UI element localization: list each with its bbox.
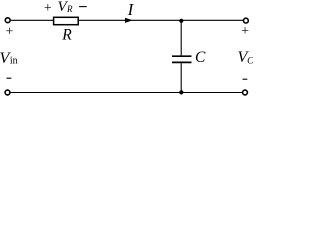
- label V_R: [58, 0, 74, 15]
- node junction bottom: [179, 90, 183, 94]
- current arrow I: [125, 18, 133, 23]
- svg-text:in: in: [10, 55, 18, 66]
- svg-text:R: R: [61, 27, 72, 44]
- svg-text:C: C: [195, 49, 206, 66]
- terminal bottom-left: [5, 90, 10, 95]
- polarity plus top-right: [241, 24, 249, 39]
- label V_C: [238, 49, 255, 66]
- polarity plus top-left: [6, 25, 14, 40]
- polarity minus bottom-left: [7, 77, 12, 79]
- svg-text:+: +: [44, 1, 52, 16]
- node junction top: [179, 19, 183, 23]
- wire top: from left terminal to right terminal: [11, 19, 243, 21]
- capacitor C: [172, 20, 192, 92]
- svg-text:+: +: [6, 25, 14, 40]
- terminal top-right: [244, 18, 249, 23]
- label R: [61, 27, 72, 44]
- terminal bottom-right: [243, 90, 248, 95]
- label V_R plus: [44, 1, 52, 16]
- svg-text:I: I: [127, 0, 135, 19]
- label C: [195, 49, 206, 66]
- terminal top-left: [5, 18, 10, 23]
- svg-text:R: R: [66, 4, 73, 14]
- label V_in: [0, 50, 18, 67]
- polarity minus bottom-right: [243, 78, 248, 80]
- label V_R minus: [79, 6, 87, 8]
- resistor R: [54, 17, 79, 24]
- label I: [127, 0, 135, 19]
- wire bottom: from left terminal to right terminal: [11, 92, 242, 94]
- svg-text:+: +: [241, 24, 249, 39]
- svg-text:C: C: [247, 56, 253, 66]
